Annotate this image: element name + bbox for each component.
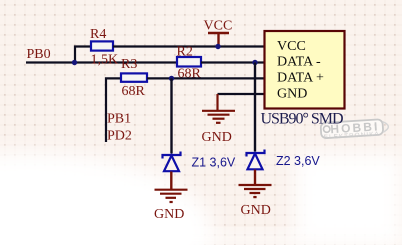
svg-text:GND: GND [277, 87, 307, 102]
wire R3 to U1 DATA+ pin [147, 77, 265, 79]
wire riser PB0 to R4 [75, 47, 91, 63]
zener diode Z2 [247, 150, 265, 170]
svg-text:R2: R2 [177, 45, 193, 60]
watermark HOBBI elektronika [320, 119, 388, 141]
svg-text:1,5K: 1,5K [91, 53, 119, 68]
svg-text:GND: GND [154, 207, 184, 222]
svg-text:PD2: PD2 [107, 129, 132, 144]
wire Z1 anode stem [170, 172, 172, 190]
power VCC symbol [208, 33, 229, 47]
wire R4 to U1 VCC pin [113, 45, 265, 47]
svg-text:R4: R4 [90, 27, 106, 42]
resistor R2 [177, 57, 201, 67]
ground GND (Z2) [239, 185, 272, 197]
svg-text:68R: 68R [122, 84, 146, 99]
zener diode Z1 [163, 152, 181, 172]
wire R2 to U1 DATA- pin [201, 61, 265, 63]
svg-text:DATA +: DATA + [277, 71, 324, 86]
wire Z2 drop [254, 63, 256, 152]
svg-text:VCC: VCC [277, 39, 306, 54]
ground GND (U1) [202, 94, 235, 123]
svg-text:USB90° SMD: USB90° SMD [261, 110, 344, 127]
junction VCC [215, 44, 220, 49]
junction PB0/R4 [72, 60, 77, 65]
resistor R3 [121, 73, 147, 81]
svg-text:PB0: PB0 [27, 47, 51, 62]
svg-text:GND: GND [241, 203, 271, 218]
junction DATA+ [169, 76, 174, 81]
junction DATA- [252, 60, 257, 65]
svg-text:GND: GND [202, 130, 232, 145]
svg-text:R3: R3 [121, 57, 137, 72]
svg-text:DATA -: DATA - [277, 55, 321, 70]
svg-text:Z1 3,6V: Z1 3,6V [192, 156, 236, 170]
resistor R4 [91, 41, 113, 50]
wire Z2 anode stem [254, 170, 256, 185]
svg-text:PB1: PB1 [107, 111, 131, 126]
svg-text:Z2 3,6V: Z2 3,6V [276, 154, 320, 168]
wire Z1 drop [170, 78, 172, 153]
svg-text:VCC: VCC [204, 19, 233, 34]
ground GND (Z1) [155, 190, 188, 202]
wire PB0 horizontal [26, 61, 177, 63]
wire PB1/PD2 stub [106, 78, 121, 142]
IC U1 USB connector body [265, 31, 345, 109]
wire U1 GND pin [218, 93, 265, 95]
